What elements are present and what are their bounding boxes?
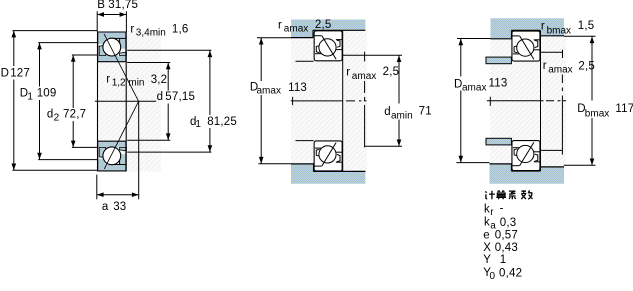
hatch background middle figure (291, 31, 367, 172)
dimension B (96, 11, 98, 31)
svg-text:1: 1 (195, 119, 201, 130)
abutment edge top (541, 51, 563, 53)
svg-text:e: e (483, 229, 490, 241)
bearing upper half-section (97, 32, 126, 62)
axis centerline (95, 100, 156, 102)
svg-text:1,5: 1,5 (578, 20, 595, 32)
contact line lower (104, 101, 138, 169)
hatch background right figure (490, 31, 566, 171)
abutment edge line (364, 52, 366, 148)
svg-text:71: 71 (419, 106, 432, 118)
dimension Damax 113 (257, 37, 291, 39)
dimension damin 71 (343, 54, 402, 56)
bearing right side face (540, 31, 542, 172)
svg-text:1: 1 (27, 91, 33, 102)
svg-text:3,2: 3,2 (151, 74, 168, 86)
svg-text:0,3: 0,3 (500, 217, 517, 229)
title 计算系数 (drawn strokes) (485, 190, 532, 199)
svg-text:113: 113 (489, 78, 508, 90)
svg-text:r: r (106, 73, 110, 85)
svg-text:117: 117 (615, 103, 633, 115)
svg-text:0,57: 0,57 (495, 229, 518, 241)
svg-text:bmax: bmax (585, 108, 609, 119)
bearing right side face (342, 30, 344, 171)
bearing side faces (97, 32, 99, 172)
svg-text:0,43: 0,43 (495, 242, 518, 254)
svg-text:2,5: 2,5 (578, 60, 595, 72)
svg-text:r: r (130, 23, 134, 35)
housing bottom strip (490, 164, 565, 184)
svg-text:X: X (483, 242, 491, 254)
svg-text:amax: amax (548, 65, 572, 76)
svg-text:r: r (541, 21, 545, 33)
svg-text:1,2 min: 1,2 min (112, 78, 145, 89)
housing top strip (491, 18, 565, 39)
svg-text:81,25: 81,25 (207, 116, 237, 128)
shaft seat lines (296, 60, 314, 62)
svg-text:r: r (278, 20, 282, 32)
dimension a 33 (96, 175, 98, 200)
housing top strip (291, 20, 365, 38)
bearing upper half-section (314, 31, 342, 61)
svg-text:amax: amax (257, 85, 281, 96)
svg-text:1,6: 1,6 (172, 23, 189, 35)
svg-text:2,5: 2,5 (383, 66, 400, 78)
svg-text:d: d (47, 109, 54, 121)
svg-text:d: d (157, 91, 164, 103)
svg-text:amin: amin (391, 111, 413, 122)
svg-text:57,15: 57,15 (165, 91, 195, 103)
abutment edge bottom (541, 149, 563, 151)
svg-text:D: D (1, 67, 10, 79)
dimension Dbmax 117 (564, 35, 596, 37)
svg-text:B: B (97, 0, 105, 11)
dimension D1 109 (38, 42, 97, 44)
dimension D 127 (12, 30, 97, 32)
axis centerline (291, 100, 343, 102)
svg-text:72,7: 72,7 (63, 109, 86, 121)
svg-text:amax: amax (352, 71, 376, 82)
svg-text:3,4min: 3,4min (136, 28, 166, 39)
bearing upper half-section (512, 31, 540, 61)
svg-text:113: 113 (288, 82, 307, 94)
svg-text:127: 127 (10, 67, 30, 79)
svg-text:-: - (500, 203, 504, 215)
svg-text:31,75: 31,75 (108, 0, 138, 11)
hatch background left figure (97, 31, 161, 172)
housing bottom strip (291, 164, 365, 184)
svg-text:2,5: 2,5 (315, 19, 332, 31)
contact line upper (104, 34, 139, 102)
svg-text:k: k (484, 203, 490, 215)
svg-text:a: a (102, 201, 109, 213)
svg-text:k: k (484, 217, 490, 229)
shaft collar upper (486, 57, 511, 64)
svg-text:33: 33 (113, 201, 126, 213)
dimension Damax 113 (457, 38, 491, 40)
svg-text:bmax: bmax (547, 25, 571, 36)
bearing lower half-section (97, 141, 126, 171)
svg-text:109: 109 (37, 87, 57, 99)
bearing lower half-section (314, 141, 342, 171)
dimension d2 72,7 (72, 54, 97, 56)
bearing lower half-section (512, 141, 540, 171)
abutment dash line (561, 75, 563, 147)
svg-text:r: r (543, 60, 547, 72)
svg-text:amax: amax (462, 82, 486, 93)
svg-text:0: 0 (490, 271, 496, 282)
svg-text:d: d (384, 106, 391, 118)
dimension d1 81,25 (127, 49, 211, 51)
svg-text:0,42: 0,42 (499, 267, 522, 279)
dimension d 57,15 (127, 62, 170, 64)
svg-text:amax: amax (284, 24, 308, 35)
svg-text:1: 1 (500, 254, 507, 266)
svg-text:r: r (346, 67, 350, 79)
svg-text:2: 2 (54, 112, 60, 123)
shaft collar lower (486, 138, 511, 145)
svg-text:Y: Y (483, 254, 491, 266)
axis centerline (487, 100, 544, 102)
